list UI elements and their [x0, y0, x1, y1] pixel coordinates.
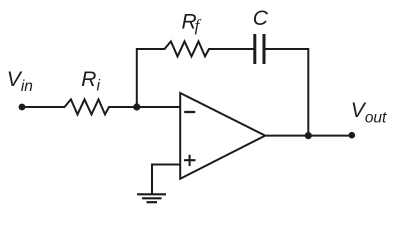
svg-text:Vout: Vout — [351, 99, 387, 127]
svg-text:Ri: Ri — [81, 68, 100, 95]
svg-text:C: C — [253, 7, 269, 30]
svg-text:Vin: Vin — [7, 68, 33, 95]
svg-text:Rf: Rf — [182, 10, 202, 35]
